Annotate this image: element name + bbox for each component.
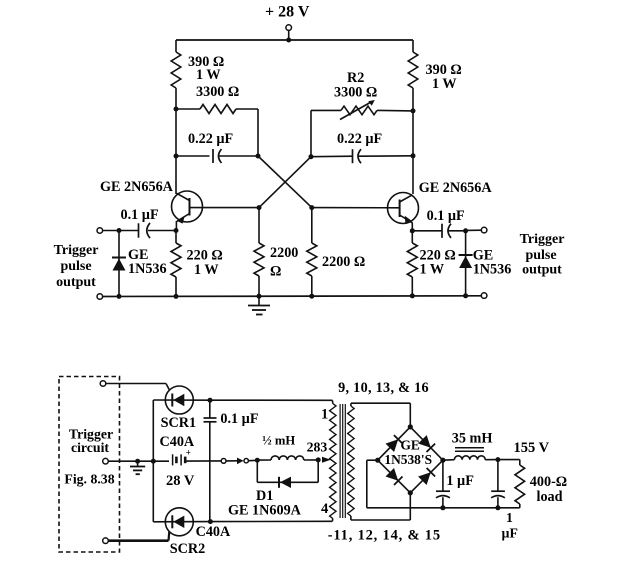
svg-text:9, 10, 13, & 16: 9, 10, 13, & 16 <box>338 380 429 396</box>
svg-text:output: output <box>522 263 562 278</box>
svg-text:1 W: 1 W <box>196 67 221 83</box>
svg-text:Trigger: Trigger <box>54 243 99 258</box>
resistor 390 ohm 1W right <box>408 52 462 92</box>
svg-text:circuit: circuit <box>71 440 109 455</box>
svg-text:1N538'S: 1N538'S <box>384 452 432 467</box>
wire bridge left to rail <box>367 460 378 508</box>
label secondary top pins <box>338 380 429 396</box>
svg-text:-11, 12, 14, & 15: -11, 12, 14, & 15 <box>328 528 441 544</box>
svg-text:+ 28 V: + 28 V <box>265 4 310 21</box>
svg-text:µF: µF <box>502 526 518 541</box>
svg-text:3300 Ω: 3300 Ω <box>334 85 377 101</box>
svg-text:+: + <box>186 448 191 458</box>
node collector2-R2 <box>411 108 416 113</box>
svg-text:output: output <box>56 275 96 290</box>
svg-text:SCR2: SCR2 <box>170 541 205 557</box>
node scr2-cap <box>208 519 213 524</box>
svg-text:4: 4 <box>321 501 329 517</box>
node rail-2200-right <box>309 294 314 299</box>
wire cross coupling A <box>258 156 312 208</box>
transformer primary winding <box>321 400 336 521</box>
svg-text:283: 283 <box>307 440 328 455</box>
resistor 220 ohm 1W right <box>407 231 455 296</box>
node bridge bottom <box>408 490 413 495</box>
resistor R2 3300 ohm variable <box>311 70 413 120</box>
svg-text:1N536: 1N536 <box>128 261 167 277</box>
wire bottom rail <box>100 295 482 298</box>
label bridge GE 1N538S <box>384 438 432 467</box>
wire output bottom rail <box>367 507 520 509</box>
node Q1 emitter <box>174 228 179 233</box>
svg-text:28 V: 28 V <box>166 473 195 489</box>
inductor 35 mH <box>443 431 498 461</box>
wire left collector rail <box>175 40 177 194</box>
terminal trigger out right top <box>466 227 487 233</box>
svg-text:35 mH: 35 mH <box>452 431 493 447</box>
svg-text:0.22 µF: 0.22 µF <box>337 131 382 147</box>
bridge diode left-bottom <box>378 460 411 493</box>
diode D1 GE 1N609A <box>228 460 318 519</box>
terminal gate1 <box>100 381 106 387</box>
resistor 3300 ohm left <box>176 84 258 114</box>
transformer secondary winding <box>348 403 354 520</box>
svg-text:1 W: 1 W <box>420 262 445 278</box>
svg-text:1 W: 1 W <box>432 76 457 92</box>
node choke-D1 right <box>316 457 321 462</box>
inductor half mH <box>257 434 318 461</box>
svg-text:1N536: 1N536 <box>473 262 512 278</box>
svg-text:GE: GE <box>401 438 420 453</box>
SCR2 C40A <box>153 508 231 557</box>
node base2 <box>309 205 314 210</box>
svg-text:0.1 µF: 0.1 µF <box>220 411 258 427</box>
wire right collector rail <box>412 40 414 194</box>
wire secondary top <box>351 403 410 427</box>
svg-text:0.1 µF: 0.1 µF <box>427 208 465 224</box>
diode GE 1N536 right <box>459 231 512 296</box>
node bridge left <box>375 458 380 463</box>
svg-text:GE 2N656A: GE 2N656A <box>419 180 493 196</box>
bridge diode bottom-right <box>410 460 443 493</box>
svg-text:pulse: pulse <box>60 259 91 274</box>
svg-text:GE 1N609A: GE 1N609A <box>228 503 302 519</box>
wire Q2 base lead <box>312 207 400 209</box>
node cap-diode left <box>117 228 122 233</box>
svg-text:pulse: pulse <box>525 248 556 263</box>
node scr1-cap <box>208 398 213 403</box>
svg-text:3300 Ω: 3300 Ω <box>196 84 239 100</box>
node battery-neg <box>151 459 156 464</box>
wire Q1 base lead <box>190 207 260 209</box>
svg-text:2200: 2200 <box>270 245 298 261</box>
node choke out <box>495 457 500 462</box>
capacitor 0.1uF left <box>121 207 177 238</box>
svg-text:1: 1 <box>321 407 328 423</box>
svg-text:1 µF: 1 µF <box>446 473 473 489</box>
terminal trigger in mid <box>103 458 169 464</box>
wire gate1 <box>106 384 170 391</box>
node collector1-cap <box>174 154 179 159</box>
capacitor 0.1uF commutating <box>204 400 259 521</box>
label secondary bottom pins <box>328 528 441 544</box>
capacitor 1uF second <box>491 460 518 541</box>
terminal trigger out left top <box>97 228 119 234</box>
node bridge top <box>408 424 413 429</box>
capacitor 0.1uF right <box>412 208 465 238</box>
terminal gate2 <box>103 538 109 544</box>
ground bottom circuit <box>130 461 145 474</box>
svg-text:0.1 µF: 0.1 µF <box>121 207 159 223</box>
wire anode2 to pin4 <box>210 520 332 522</box>
node +28V supply <box>265 4 310 43</box>
bridge diode left-top <box>378 427 411 460</box>
wire cathode bus <box>152 400 154 522</box>
label trigger pulse output right <box>520 232 565 278</box>
svg-text:0.22 µF: 0.22 µF <box>188 131 233 147</box>
wire secondary bottom <box>351 493 410 520</box>
svg-text:C40A: C40A <box>196 524 231 540</box>
ground top circuit <box>248 296 270 314</box>
svg-text:½ mH: ½ mH <box>262 434 295 448</box>
node left-loop-out <box>256 154 261 159</box>
svg-text:Trigger: Trigger <box>520 232 565 247</box>
SCR1 C40A <box>153 386 210 450</box>
node collector2-cap <box>411 153 416 158</box>
resistor 220 ohm 1W left <box>171 231 223 297</box>
capacitor 0.22uF right <box>311 131 413 163</box>
wire cross coupling B <box>259 157 311 208</box>
transistor Q2 GE 2N656A <box>388 180 493 231</box>
resistor 2200 ohm right <box>307 208 365 297</box>
node choke-D1 left <box>255 458 260 463</box>
wire left loop right side <box>257 109 259 156</box>
resistor 2200 ohm left <box>254 208 298 297</box>
node cap2 bottom <box>495 505 500 510</box>
capacitor 1uF first <box>436 460 474 508</box>
trigger circuit box <box>59 377 120 553</box>
svg-text:400-Ω: 400-Ω <box>530 474 567 490</box>
node ground mid <box>135 459 140 464</box>
node rail-220-right <box>410 293 415 298</box>
node base1 <box>257 205 262 210</box>
node right-loop-in <box>309 154 314 159</box>
resistor 390 ohm 1W left <box>171 52 224 88</box>
svg-text:GE 2N656A: GE 2N656A <box>100 179 174 195</box>
node rail-diode-left <box>117 294 122 299</box>
node rail-220-left <box>174 294 179 299</box>
node collector1-3300 <box>174 107 179 112</box>
capacitor 0.22uF left <box>176 131 258 163</box>
svg-text:2200 Ω: 2200 Ω <box>322 254 365 270</box>
node rail-2200-left <box>257 294 262 299</box>
terminal trigger out right bottom <box>481 293 487 299</box>
svg-text:155 V: 155 V <box>514 440 550 456</box>
svg-text:Fig. 8.38: Fig. 8.38 <box>64 472 114 487</box>
wire gate2 <box>108 532 169 541</box>
center tap arrow <box>322 457 331 463</box>
svg-text:load: load <box>537 489 563 505</box>
battery 28V <box>166 448 221 489</box>
transformer core <box>340 404 345 518</box>
label trigger pulse output left <box>54 243 99 290</box>
label 283 <box>307 440 328 455</box>
node Q2 emitter <box>410 228 415 233</box>
bridge diode top-right <box>410 427 443 460</box>
node cap-diode right <box>463 228 468 233</box>
node cap1 bottom <box>440 505 445 510</box>
svg-text:SCR1: SCR1 <box>161 415 196 431</box>
svg-text:1: 1 <box>506 510 513 525</box>
wire anode1 to pin1 <box>210 399 332 401</box>
connector plug <box>221 458 257 465</box>
node rail-diode-right <box>463 293 468 298</box>
diode GE 1N536 left <box>112 231 167 297</box>
wire right loop left side <box>310 110 312 156</box>
transistor Q1 GE 2N656A <box>100 179 203 231</box>
resistor 400 ohm load <box>498 440 567 508</box>
terminal trigger out left bottom <box>97 294 103 300</box>
svg-text:1 W: 1 W <box>194 262 219 278</box>
svg-text:Ω: Ω <box>270 264 281 280</box>
node bridge right <box>440 458 445 463</box>
wire top rail <box>176 39 413 41</box>
